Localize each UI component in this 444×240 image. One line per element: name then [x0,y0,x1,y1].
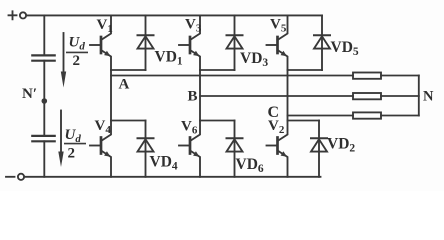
wire resistor C to N [381,115,419,117]
top dc rail wire [26,14,322,16]
transistor V5 collector wire [278,15,288,40]
negative terminal circle [18,174,24,180]
positive terminal plus sign [9,11,17,19]
transistor V4 base bar [100,138,103,154]
transistor V6 base stub [179,145,190,147]
svg-text:2: 2 [73,53,81,69]
phase A wire [111,75,353,77]
upper dc-link capacitor [32,55,54,60]
node N' junction dot [42,98,48,104]
transistor V4 collector wire [101,121,111,142]
wire between capacitors [43,61,45,136]
transistor V1 base bar [100,37,103,53]
leg 3 upper connector wire [288,69,323,71]
diode VD3 [234,15,236,70]
wire resistor A to N [381,75,419,77]
transistor V3 base stub [179,44,190,46]
svg-text:B: B [188,89,198,105]
leg 3 middle wire [287,70,289,121]
transistor V2 base stub [267,145,278,147]
svg-text:A: A [119,77,130,93]
transistor V5 base bar [276,37,279,53]
transistor V1 base stub [90,44,101,46]
leg 2 middle wire [199,70,201,121]
phase B wire [200,95,353,97]
diode VD2 [318,121,320,177]
svg-text:N′: N′ [22,86,37,102]
diode VD1 [145,15,147,70]
transistor V4 emitter wire [101,151,111,177]
leg 1 lower connector wire [111,120,146,122]
transistor V1 collector wire [101,15,111,40]
transistor V6 collector wire [190,121,200,142]
leg 3 lower connector wire [288,120,320,122]
transistor V6 emitter wire [190,151,200,177]
voltage arrow Ud/2 upper [63,33,65,72]
transistor V4 base stub [90,145,101,147]
diode VD5 [321,15,323,70]
lower dc-link capacitor [32,136,54,141]
diode VD6 [234,121,236,177]
transistor V2 base bar [276,138,279,154]
transistor V6 base bar [189,138,192,154]
transistor V3 base bar [189,37,192,53]
load resistor phase B [353,93,381,99]
wire top rail to upper capacitor [43,15,45,55]
transistor V5 emitter wire [278,50,288,70]
load resistor phase A [353,73,381,79]
node N vertical wire [418,76,420,116]
wire lower capacitor to bottom rail [43,141,45,177]
svg-text:C: C [268,104,280,121]
phase C wire [288,115,354,117]
voltage arrow Ud/2 lower [60,111,62,153]
leg 2 lower connector wire [200,120,235,122]
transistor V3 emitter wire [190,50,200,70]
transistor V2 emitter wire [278,151,288,177]
positive terminal circle [20,12,26,18]
leg 1 middle wire [110,70,112,121]
svg-text:N: N [423,89,434,105]
leg 1 upper connector wire [111,69,146,71]
transistor V1 emitter wire [101,50,111,70]
transistor V5 base stub [267,44,278,46]
diode VD4 [145,121,147,177]
transistor V2 collector wire [278,121,288,142]
transistor V3 collector wire [190,15,200,40]
svg-text:2: 2 [68,146,76,162]
leg 2 upper connector wire [200,69,235,71]
load resistor phase C [353,112,381,118]
negative terminal minus sign [6,176,15,178]
bottom dc rail wire [24,176,320,178]
wire resistor B to N [381,95,419,97]
